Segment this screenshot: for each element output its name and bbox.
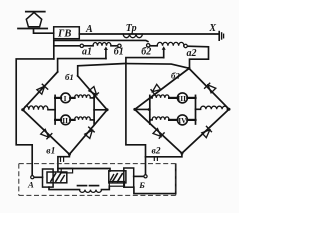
svg-text:б1: б1 [114, 46, 124, 57]
svg-text:б2: б2 [171, 71, 180, 81]
svg-text:IV: IV [178, 116, 187, 125]
svg-text:в2: в2 [152, 146, 161, 157]
svg-text:I: I [64, 94, 67, 103]
svg-text:ГВ: ГВ [57, 29, 71, 40]
svg-text:а1: а1 [82, 47, 92, 58]
svg-text:а2: а2 [187, 48, 197, 59]
svg-text:б1: б1 [65, 72, 74, 82]
svg-text:III: III [177, 94, 186, 103]
svg-text:II: II [62, 116, 68, 125]
svg-text:Б: Б [138, 180, 145, 190]
svg-text:Тр: Тр [126, 23, 137, 34]
svg-text:б2: б2 [141, 46, 151, 57]
svg-text:в1: в1 [46, 145, 55, 156]
svg-text:X: X [208, 23, 216, 34]
svg-text:А: А [27, 180, 34, 190]
svg-text:А: А [85, 24, 93, 35]
